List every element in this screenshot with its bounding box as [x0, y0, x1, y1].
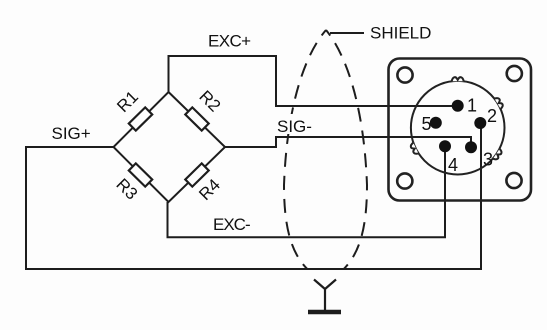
- connector body: rounded square flange: [389, 59, 532, 201]
- connector keyway notch top: [452, 77, 464, 81]
- connector keyway notch upper-right: [494, 97, 504, 109]
- pin 5: [430, 117, 442, 129]
- wire shield leader line to SHIELD label: [330, 32, 364, 34]
- svg-text:SIG-: SIG-: [277, 117, 312, 136]
- svg-text:3: 3: [483, 150, 493, 170]
- shield dashed ellipse (cable shield): [284, 30, 367, 282]
- connector mounting hole bottom-left: [397, 173, 412, 188]
- pin 2: [474, 117, 486, 129]
- resistor R2: [185, 107, 208, 130]
- svg-text:2: 2: [487, 106, 497, 126]
- resistor R3: [129, 163, 152, 186]
- svg-text:EXC+: EXC+: [208, 32, 251, 51]
- svg-text:R2: R2: [195, 87, 224, 116]
- svg-text:EXC-: EXC-: [213, 215, 250, 234]
- wire SIG+ net: bridge left node, left rail, bottom rail, up to pin 2: [26, 123, 481, 269]
- wire EXC- net: bridge bottom node, lower rail, up to pin 4: [168, 146, 446, 237]
- connector keyway notch lower-left: [410, 143, 419, 156]
- wire EXC+ net: bridge top node to connector pin 1: [169, 56, 458, 106]
- svg-text:1: 1: [467, 96, 477, 116]
- svg-text:R1: R1: [113, 87, 142, 116]
- connector mounting hole bottom-right: [506, 173, 521, 188]
- ground bar: [308, 310, 341, 315]
- resistor R4: [185, 163, 208, 186]
- svg-text:5: 5: [422, 114, 432, 134]
- resistor R1: [129, 107, 152, 130]
- pin 3: [465, 141, 477, 153]
- svg-text:4: 4: [448, 155, 458, 175]
- label SIG-: [276, 114, 314, 134]
- pin 4: [439, 140, 451, 152]
- connector mounting hole top-right: [507, 66, 522, 81]
- connector keyway notch lower-right: [493, 149, 503, 161]
- ground: shield drain Y: [314, 280, 336, 311]
- svg-text:SIG+: SIG+: [52, 124, 91, 143]
- svg-text:SHIELD: SHIELD: [370, 24, 431, 43]
- connector barrel circle: [411, 81, 505, 175]
- pin 1: [452, 100, 464, 112]
- wire bridge diamond (load cell bridge legs): [114, 92, 226, 202]
- wire SIG- net: bridge right node to connector pin 3: [225, 137, 471, 147]
- connector mounting hole top-left: [397, 67, 412, 82]
